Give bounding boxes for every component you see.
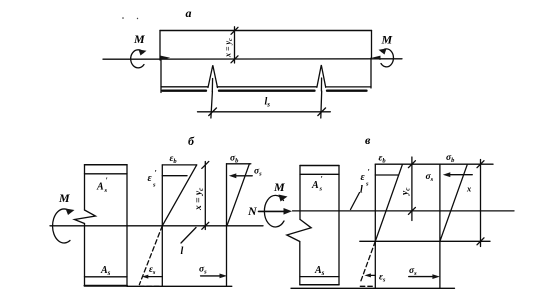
moment M arc (b) [53,209,70,243]
eps_s arrow (v) [368,274,375,276]
svg-text:s: s [319,186,323,193]
dimension y_c (v) [411,157,413,221]
beam right edge [370,31,373,89]
svg-text:εs: εs [149,265,156,276]
svg-text:σs: σs [426,172,434,183]
beam top edge [160,30,372,32]
svg-text:l: l [360,185,363,196]
svg-text:l: l [181,246,184,257]
svg-text:′: ′ [368,168,370,177]
sig_s bottom arrow (v) [409,276,434,278]
dim slash 1 [209,108,217,116]
bottom steel band line (v) [300,276,339,278]
svg-text:As: As [314,265,325,277]
svg-text:N: N [247,204,258,218]
strain diagonal (v) [375,164,402,241]
svg-text:s: s [104,187,108,194]
baseline (b) [127,285,232,287]
svg-text:a: a [186,6,192,20]
crack 2 [317,65,326,87]
strain dashed diagonal (b) [139,226,162,285]
crack 1 [208,65,218,87]
strain axis (v) [374,164,376,288]
svg-text:M: M [58,191,70,205]
svg-text:σs: σs [254,167,262,178]
baseline (v) [291,287,455,289]
svg-text:′: ′ [106,176,108,185]
label eps_s' (b) [148,169,157,189]
svg-text:εb: εb [379,154,387,165]
left end solid arrow [161,56,171,60]
moment M right arc [381,49,393,67]
bottom steel band line (b) [85,276,128,278]
label 1 leader (b) [181,228,196,244]
strain dashed bottom tick (v) [360,285,375,287]
break zigzag (b) [75,210,96,224]
axis line (v) [293,210,515,212]
label As' (b) [96,176,108,194]
strain dashed bottom tick (b) [139,285,162,287]
label 1 leader (v) [351,193,360,210]
svg-text:As: As [100,265,111,277]
strain axis (b) [161,165,163,286]
svg-text:yc: yc [401,188,412,196]
force N arrow [259,210,286,212]
bottom edge (v) [300,284,339,286]
strain top line (b) [162,164,196,166]
stress top line (b) [227,163,251,165]
svg-text:εb: εb [170,154,178,165]
svg-text:в: в [365,133,371,147]
stress diagonal (b) [227,164,250,226]
stress axis (b) [226,164,228,286]
section rectangle (b) [85,164,128,166]
svg-text:x = yc: x = yc [194,188,205,211]
neutral axis line (v) [360,240,490,242]
eps_s' tick (b) [162,175,187,177]
beam left edge [160,31,161,93]
sig_s top arrow (b) [233,175,252,177]
svg-text:′: ′ [321,175,323,184]
dim extension line 1 [211,92,213,119]
section rectangle (v) [300,165,339,167]
svg-text:x = yc: x = yc [224,38,235,58]
svg-text:σb: σb [446,153,455,164]
svg-text:σs: σs [409,266,417,277]
svg-text:s: s [365,181,369,188]
svg-text:x: x [466,184,472,194]
label eps_s' (v) [361,168,370,188]
top extension line (v) [375,163,493,165]
sig_s top arrow (v) [447,174,472,176]
svg-text:б: б [188,134,195,148]
dimension line l_s [198,111,331,113]
top steel band line (v) [300,173,339,175]
dim extension line 2 [320,91,323,118]
strain dashed diagonal (v) [360,241,375,282]
dimension x=y_c (top) [234,27,236,63]
label As' (v) [311,175,323,193]
break zigzag (v) [287,219,311,241]
svg-text:ε: ε [148,173,153,184]
bottom edge (b) [85,285,128,287]
stress diagonal (v) [440,164,468,241]
svg-text:A: A [96,182,104,193]
eps_s arrow (b) [146,276,162,278]
crack 2 tick [320,78,322,91]
moment M arc (v) [264,195,284,227]
eps_s' tick (v) [375,174,398,176]
svg-text:M: M [133,32,145,46]
svg-text:′: ′ [155,169,157,178]
svg-text:A: A [311,180,319,191]
svg-text:M: M [381,33,393,47]
svg-text:ls: ls [265,97,271,109]
moment M left arc [131,50,144,68]
svg-text:σs: σs [199,265,207,276]
speck dots [122,17,124,19]
svg-text:σb: σb [230,154,239,165]
dim slash 2 [318,108,326,116]
dimension x (v) [480,160,482,247]
dimension x=y_c (b) [204,162,206,230]
svg-text:ε: ε [361,172,366,183]
sig_s bottom arrow (b) [201,275,222,277]
svg-text:M: M [273,180,285,194]
beam bottom thick line [163,89,367,91]
svg-text:s: s [152,182,156,189]
top steel band line (b) [85,173,128,175]
wire: top beam axis [103,58,402,60]
crack 1 tick [211,79,213,92]
strain diagonal (b) [162,165,196,226]
right end solid arrow [372,56,381,60]
stress axis (v) [439,164,441,288]
beam bottom thin edge [161,86,371,88]
axis line (b) [50,225,263,227]
svg-text:εs: εs [379,273,386,284]
